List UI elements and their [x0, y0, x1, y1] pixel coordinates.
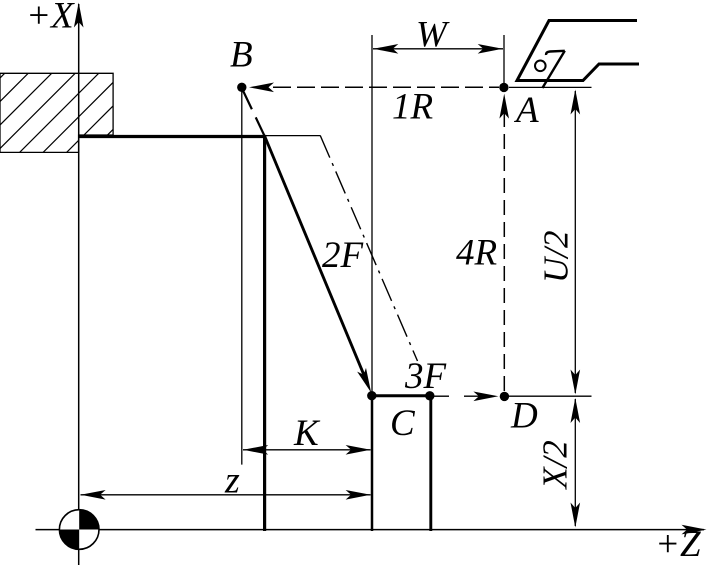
A right extension: [509, 86, 592, 88]
chuck hatch block: [0, 0, 245, 160]
svg-text:K: K: [293, 413, 321, 454]
W extension line x=372: [371, 35, 373, 396]
svg-text:3F: 3F: [404, 356, 447, 397]
workpiece top line: [79, 135, 267, 138]
svg-text:X/2: X/2: [536, 440, 575, 491]
X/2 dimension: [574, 399, 576, 526]
svg-text:4R: 4R: [456, 233, 497, 274]
point C2: [425, 391, 434, 400]
stub left vertical below C: [371, 396, 374, 531]
svg-text:2F: 2F: [322, 235, 364, 276]
origin symbol: [59, 510, 99, 550]
svg-text:B: B: [230, 35, 253, 76]
U/2 dimension: [574, 91, 576, 393]
A upper extension line: [503, 35, 505, 84]
2F taper cut line: [265, 137, 368, 384]
svg-text:+X: +X: [26, 0, 75, 37]
point B: [237, 83, 246, 92]
tool body: [517, 21, 639, 81]
svg-text:C: C: [390, 403, 416, 444]
C to C2 line: [372, 394, 430, 397]
point A: [499, 83, 508, 92]
svg-text:1R: 1R: [392, 87, 433, 128]
point C: [367, 391, 376, 400]
point D: [500, 392, 509, 401]
tool mark 7: [542, 51, 564, 88]
+X axis: [78, 4, 80, 565]
1R dashed rapid line: [273, 86, 499, 88]
z dimension: [81, 494, 371, 496]
svg-text:W: W: [416, 15, 450, 56]
K dimension: [243, 449, 371, 451]
+Z axis: [36, 529, 705, 531]
3F dashed cut to D: [433, 395, 449, 397]
svg-text:+Z: +Z: [655, 524, 701, 565]
svg-text:A: A: [513, 90, 539, 131]
tool screw circle: [535, 61, 546, 72]
D right extension: [509, 395, 592, 397]
svg-text:z: z: [224, 460, 240, 502]
workpiece left vertical: [263, 135, 266, 531]
dash-dot taper contour: [320, 136, 417, 361]
2F dashed approach from B: [242, 89, 265, 137]
svg-text:D: D: [510, 396, 538, 437]
thin contour extension: [266, 135, 321, 137]
B extension line down: [241, 92, 243, 465]
stub right vertical: [429, 396, 432, 531]
4R dashed retract D to A: [503, 112, 505, 392]
svg-text:U/2: U/2: [537, 231, 576, 284]
W dimension: [373, 48, 503, 50]
